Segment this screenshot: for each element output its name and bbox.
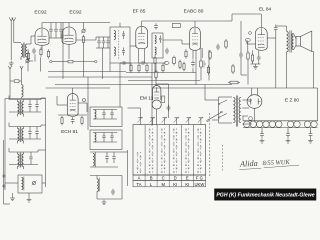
wire EL84 screen to OT feed bbox=[267, 25, 276, 39]
capacitor C4 bbox=[32, 48, 36, 55]
switch wafer terminal 6 bbox=[198, 117, 203, 125]
band switch column separators bbox=[145, 125, 193, 175]
wire C10 stubs bbox=[192, 50, 194, 73]
IF can 3 box bbox=[90, 107, 122, 127]
resistor R11 bbox=[225, 39, 227, 49]
wire heater rail left stub bbox=[242, 116, 244, 121]
band filter rails L3 bbox=[9, 123, 46, 140]
wire mid y63 bbox=[120, 62, 166, 64]
antenna bbox=[9, 18, 21, 53]
IF can1 primary cap bbox=[122, 31, 125, 39]
wire V2 anode to rail bbox=[68, 23, 70, 28]
svg-text:TA: TA bbox=[136, 182, 141, 187]
switch letter row boxes bbox=[133, 175, 206, 187]
wire cap bank2 top rail bbox=[96, 36, 110, 38]
loudspeaker LS1 bbox=[296, 31, 312, 52]
capacitor C7 bbox=[106, 37, 109, 48]
wire vertical x28 drop bbox=[27, 49, 29, 72]
wire matrix terminal A up bbox=[128, 108, 141, 118]
filter cap C24 bbox=[105, 152, 108, 163]
wire EM11 right branch bbox=[167, 84, 171, 118]
switch wafer terminal 4 bbox=[174, 117, 179, 125]
HT rail top mid y21 bbox=[142, 20, 232, 22]
wire vertical x196 drop bbox=[195, 50, 197, 85]
wire AM post down bbox=[9, 73, 11, 99]
resistor R9 bbox=[154, 56, 156, 66]
wire speaker return bbox=[312, 52, 314, 89]
capacitor C6 bbox=[102, 37, 105, 48]
svg-text:EF 85: EF 85 bbox=[133, 9, 146, 15]
wire right edge vertical return bbox=[317, 88, 319, 121]
heater circle 10 bbox=[311, 121, 317, 127]
resistor R2 bbox=[40, 47, 42, 57]
svg-text:EL 84: EL 84 bbox=[259, 7, 272, 13]
resistor R20 bbox=[179, 60, 181, 70]
band filter capacitor C17 bbox=[28, 127, 31, 140]
wire bracket vertical x127.5 bbox=[127, 150, 129, 186]
wire grid feed V1 bbox=[27, 36, 35, 44]
wire cap bank bottom bbox=[49, 37, 63, 39]
resistor R6 bbox=[130, 63, 132, 73]
wire ECH81 bottom bus bbox=[58, 114, 87, 116]
IF can4 cap C22 bbox=[102, 133, 105, 143]
wire EL84 anode to top rail bbox=[232, 14, 261, 28]
heater circle 3 bbox=[256, 121, 262, 127]
capacitor C8 bbox=[154, 23, 158, 30]
mechanical coupling dashed line 2 bbox=[222, 145, 224, 172]
wire OT bottom to rail bbox=[286, 52, 288, 88]
IF can3 cap C20 bbox=[102, 110, 105, 120]
IF can 4 box bbox=[90, 130, 122, 150]
wire can1 down to IF can below bbox=[119, 63, 121, 107]
wire left gnd stub bbox=[13, 193, 32, 202]
wire ECH81 left bbox=[57, 96, 67, 105]
oscillator coil L5 box bbox=[18, 175, 42, 193]
wire trimmer branch down bbox=[83, 23, 85, 78]
resistor R17 above EM11 bbox=[155, 70, 157, 80]
wire can2 to V4 bbox=[163, 40, 190, 44]
band filter capacitor C18 bbox=[35, 127, 38, 140]
capacitor C31 bbox=[165, 48, 169, 55]
heater circle 8 bbox=[294, 121, 300, 127]
wire vertical x152 drop bbox=[151, 63, 153, 126]
heater circle 1 bbox=[244, 121, 250, 127]
band filter rails L2 bbox=[9, 96, 46, 113]
IF can4 coil bbox=[95, 133, 97, 142]
band filter capacitor C15 bbox=[28, 100, 31, 113]
wire vertical x63 drop bbox=[62, 23, 64, 80]
IF can1 core bbox=[118, 30, 120, 60]
svg-text:A: A bbox=[138, 176, 141, 181]
power transformer T1 core bbox=[236, 96, 237, 127]
band filter L4 transformer bbox=[18, 152, 24, 169]
resistor R12 bbox=[232, 64, 234, 74]
left bus vertical x5 bbox=[4, 99, 6, 191]
switch wafer terminal 1 bbox=[138, 117, 143, 125]
wire R22 links bbox=[10, 80, 22, 82]
AM antenna post 1 bbox=[8, 66, 11, 73]
band filter capacitor C16 bbox=[35, 100, 38, 113]
svg-text:ECH 81: ECH 81 bbox=[61, 129, 78, 135]
coil L7 bbox=[97, 178, 100, 192]
wire P1 stubs bbox=[201, 48, 203, 81]
switch contacts column 6 bbox=[197, 129, 202, 174]
heater circle 9 bbox=[304, 121, 310, 127]
switch contacts column 3 bbox=[161, 129, 166, 174]
ground left stack bbox=[10, 196, 15, 201]
tube EZ80 V8 envelope bbox=[247, 95, 262, 109]
mains switch S1 bbox=[207, 111, 223, 122]
filter coil L6 bbox=[93, 152, 96, 167]
IF can1 secondary coil bbox=[114, 47, 116, 56]
IF can3 rails bbox=[93, 110, 117, 120]
power transformer T1 primary winding bbox=[233, 98, 235, 123]
svg-text:Alida: Alida bbox=[239, 159, 258, 169]
power transformer T1 secondary winding bbox=[239, 98, 241, 123]
switch contacts column 2 bbox=[149, 129, 154, 174]
aerial terminal post 1 bbox=[3, 175, 5, 177]
switch contacts column 1 bbox=[137, 152, 142, 174]
svg-text:M: M bbox=[161, 182, 165, 187]
wire junction to V2 bbox=[62, 34, 64, 38]
wire can1 stub right bbox=[129, 63, 131, 72]
capacitor C14 bbox=[71, 117, 75, 124]
band switch block outline bbox=[133, 125, 206, 175]
diode D1 terminal bbox=[249, 32, 252, 35]
heater circle 4 bbox=[263, 121, 269, 127]
resistor R11v bbox=[173, 56, 176, 66]
capacitor C26 bbox=[111, 189, 115, 196]
wire EZ80 cathode to heater rail bbox=[254, 108, 256, 121]
resistor R18 beside EM11 bbox=[162, 96, 165, 103]
switch wafer terminal 5 bbox=[186, 117, 191, 125]
ground L7 bbox=[102, 200, 107, 205]
EL84 cathode resistor R14 bbox=[251, 53, 253, 63]
wire L7 top bbox=[90, 176, 122, 200]
mechanical coupling dashed line bbox=[209, 113, 211, 176]
rail y72.5 mid bbox=[126, 72, 196, 74]
wire V1 anode to HT rail bbox=[41, 23, 43, 29]
switch contacts column 5 bbox=[185, 129, 190, 174]
heater circle 7 bbox=[287, 121, 293, 127]
handwritten model name Alida 8/55 WUK bbox=[239, 157, 299, 170]
svg-text:UKW: UKW bbox=[195, 182, 205, 187]
switch wafer terminal 2 bbox=[150, 117, 155, 125]
wire ECH81 top bbox=[46, 88, 111, 94]
heater circle 5 bbox=[269, 121, 275, 127]
resistor R12v bbox=[183, 62, 185, 72]
output transformer core bbox=[290, 31, 291, 53]
IF can3 coil bbox=[95, 110, 97, 119]
resistor R22 bbox=[14, 80, 19, 83]
IF can1 secondary cap bbox=[122, 48, 125, 56]
smoothing capacitor C27 bbox=[260, 128, 265, 144]
capacitor C10h bbox=[140, 61, 147, 65]
oscillator coil L5 bbox=[22, 177, 24, 191]
right bracket vertical x45.5 bbox=[45, 98, 47, 187]
IF can1 primary coil bbox=[114, 31, 116, 40]
band filter rails L4 bbox=[9, 148, 46, 165]
filter group3 rails bbox=[90, 152, 128, 167]
tube ECH81 V6 bbox=[67, 94, 78, 117]
capacitor C1 bbox=[49, 23, 53, 39]
svg-text:C: C bbox=[162, 176, 165, 181]
wire can1 top to rail bbox=[119, 23, 121, 28]
IF transformer can 1 box bbox=[110, 27, 130, 63]
IF can3 cap C21 bbox=[110, 110, 113, 120]
wire EL84 cathode leads bbox=[251, 50, 261, 64]
wire vertical x209 bbox=[208, 50, 210, 81]
band filter capacitor C19 bbox=[29, 152, 32, 165]
capacitor C10 bbox=[191, 60, 195, 67]
svg-text:EC92: EC92 bbox=[34, 10, 47, 16]
svg-text:KI: KI bbox=[185, 182, 189, 187]
smoothing capacitor C29 bbox=[308, 128, 313, 144]
svg-text:EABC 80: EABC 80 bbox=[184, 9, 204, 15]
wire coupling to EL84 grid bbox=[247, 40, 256, 44]
switch wafer terminal 3 bbox=[162, 117, 167, 125]
wire V3 pin stub 1 bbox=[138, 49, 140, 63]
svg-text:EC92: EC92 bbox=[69, 10, 82, 16]
wire V1 V2 drops bbox=[35, 44, 69, 62]
oscillator trimmer CT2 bbox=[32, 181, 37, 186]
capacitor C5 bbox=[97, 37, 100, 48]
IF can2 cap bbox=[159, 36, 162, 44]
rail y77 left bbox=[48, 76, 152, 78]
resistor R10 bbox=[209, 50, 211, 60]
resistor R4 bbox=[82, 35, 84, 45]
resistor R1 bbox=[27, 51, 29, 61]
capacitor C30 screen bbox=[274, 26, 278, 89]
volume potentiometer P1 bbox=[200, 59, 206, 69]
rail y71.5 left bbox=[48, 71, 126, 73]
svg-text:E: E bbox=[186, 176, 189, 181]
resistor R16 bbox=[81, 116, 83, 126]
wire ECH81 right parts bbox=[78, 99, 87, 113]
svg-text:D: D bbox=[174, 176, 177, 181]
wire cap bank2 bottom bbox=[96, 48, 110, 79]
wire can1 to V3 grid bbox=[130, 45, 137, 47]
wire V2 to cap bank 2 bbox=[76, 37, 96, 40]
band filter L3 transformer bbox=[18, 127, 24, 144]
coil L8 zigzag bbox=[22, 73, 24, 99]
output transformer secondary bbox=[292, 34, 294, 50]
heater circle 6 bbox=[276, 121, 282, 127]
resistor R13 on y82 bbox=[228, 81, 240, 84]
resistor R15 bbox=[61, 116, 63, 126]
wire y98.5 left bbox=[5, 98, 45, 100]
band filter L2 transformer bbox=[18, 100, 24, 117]
resistor R23 bbox=[185, 49, 187, 59]
mid rail y88 right bbox=[152, 87, 318, 89]
IF can4 cap C23 bbox=[110, 133, 113, 143]
maker bar bbox=[215, 189, 317, 200]
wire left bottom corner bbox=[4, 140, 11, 204]
ground below antenna bbox=[9, 52, 14, 66]
HT rail top y22.5 bbox=[42, 22, 110, 24]
heater rail bottom bbox=[243, 127, 318, 129]
output transformer T2 primary bbox=[287, 32, 289, 52]
wire R9 bottom stub bbox=[154, 65, 156, 72]
wire osc to bus bbox=[5, 182, 46, 184]
wire can1 stub left bbox=[109, 63, 111, 72]
wire EM11 to switch bbox=[156, 109, 158, 125]
capacitor C9h bbox=[121, 61, 128, 65]
resistor R5 on rail bbox=[172, 24, 180, 28]
wire speaker leads bbox=[294, 34, 296, 50]
oval R10h bbox=[164, 62, 169, 65]
filter cap C25 bbox=[112, 152, 115, 163]
IF transformer can 2 box bbox=[152, 33, 163, 58]
heater rail top bbox=[243, 120, 318, 122]
power transformer T1 primary taps box bbox=[218, 97, 232, 123]
wire V3 anode to rail bbox=[141, 21, 143, 26]
resistor R7 bbox=[138, 63, 140, 73]
wire V3 pin stub 2 bbox=[144, 49, 146, 63]
tube EM11 V7 envelope bbox=[152, 86, 161, 110]
resistor R3 bbox=[47, 49, 49, 59]
heater circle 2 bbox=[250, 121, 256, 127]
rail y84.5 long bbox=[55, 84, 232, 86]
rail y80.5 mid bbox=[128, 80, 200, 82]
capacitor C11 bbox=[216, 44, 220, 51]
aerial terminal post 2 bbox=[3, 185, 5, 187]
switch contacts column 4 bbox=[173, 129, 178, 174]
capacitor C3 bbox=[59, 23, 63, 39]
capacitor C2 bbox=[54, 23, 58, 39]
svg-text:E Z 80: E Z 80 bbox=[285, 98, 299, 104]
capacitor C12 bbox=[239, 21, 247, 75]
wire T1 secondary leads bbox=[242, 100, 252, 124]
wire vertical x40.5 drop bbox=[40, 57, 42, 71]
wire vertical x88 bus bbox=[87, 77, 89, 130]
tube EF85 V3 bbox=[136, 26, 148, 49]
smoothing capacitor C28 bbox=[286, 128, 291, 144]
trimmer CT3 bbox=[25, 59, 33, 64]
svg-text:EM 11: EM 11 bbox=[140, 96, 154, 102]
IF can2 secondary coil bbox=[155, 47, 156, 55]
wire EM11 feed bbox=[156, 63, 169, 86]
wire mains input bbox=[205, 85, 219, 121]
wire OT top feed bbox=[276, 26, 287, 31]
wire L7 bottom bbox=[97, 191, 122, 199]
tube EC92 V1 bbox=[35, 28, 49, 45]
coil L1 antenna transformer bbox=[21, 43, 27, 61]
trimmer CT1 bbox=[81, 29, 86, 34]
EL84 cathode capacitor C13 bbox=[257, 55, 261, 62]
tube EC92 V2 bbox=[62, 27, 76, 44]
svg-text:PGH (K) Funkmechanik Neustadt-: PGH (K) Funkmechanik Neustadt-Glewe bbox=[216, 193, 314, 199]
resistor R19 grid leak bbox=[245, 39, 250, 85]
resistor R21 bbox=[207, 65, 209, 75]
resistor R9b bbox=[162, 63, 164, 73]
resistor R8 bbox=[146, 63, 148, 73]
tube EABC80 V4 bbox=[190, 27, 201, 50]
wire V2 grid line y61.6 bbox=[50, 60, 97, 63]
wire V4 anode to rail bbox=[194, 21, 196, 27]
dial lamp bbox=[249, 117, 253, 121]
svg-text:B: B bbox=[150, 176, 153, 181]
tube EL84 V5 bbox=[255, 27, 267, 50]
IF can2 primary coil bbox=[155, 36, 156, 44]
wire EZ80 anode leads bbox=[252, 88, 258, 95]
AM antenna post 2 bbox=[20, 66, 23, 73]
ground EL84 cathode bbox=[253, 64, 258, 69]
svg-text:F G: F G bbox=[196, 176, 203, 181]
svg-text:KI: KI bbox=[173, 182, 177, 187]
IF can4 rails bbox=[93, 133, 117, 143]
